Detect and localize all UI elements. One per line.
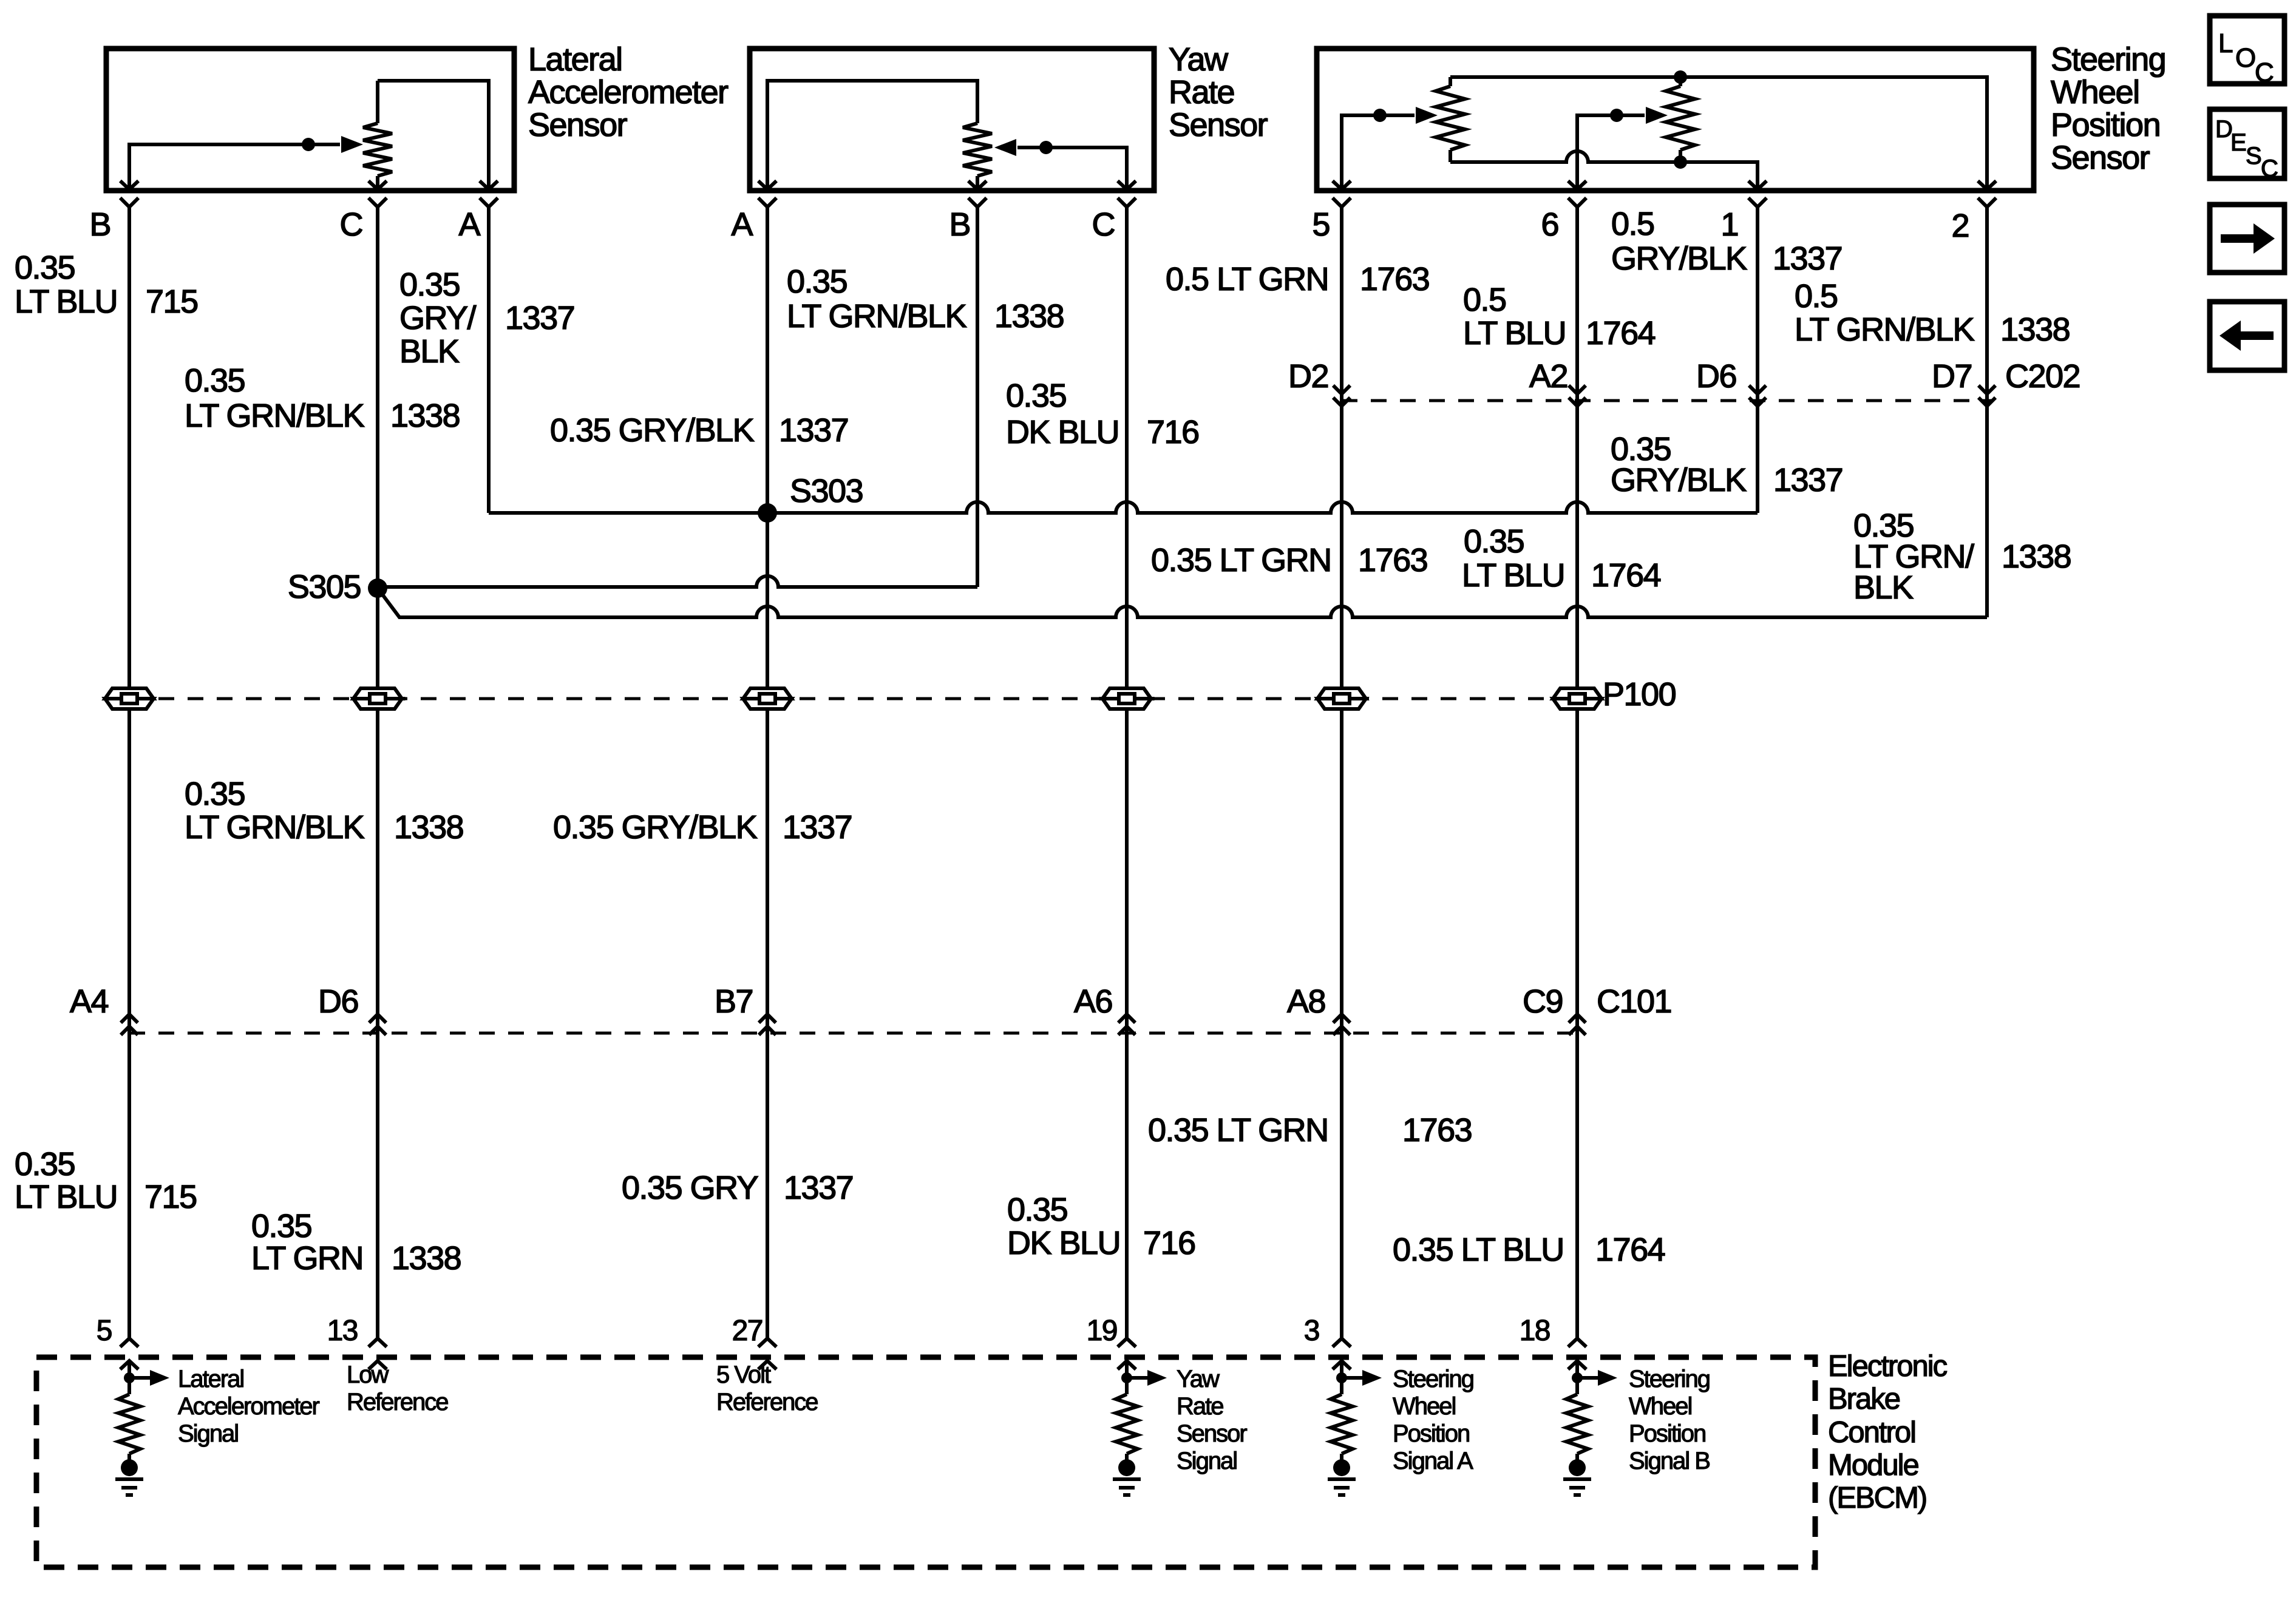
svg-text:1763: 1763	[1402, 1112, 1472, 1148]
wire label 0.35 LT BLU 1764 (below C202 A2)	[1462, 523, 1661, 594]
svg-text:D2: D2	[1288, 358, 1328, 395]
C202 pass-through arrows at D2	[1333, 385, 1350, 394]
svg-text:D6: D6	[318, 983, 358, 1020]
svg-text:Low: Low	[347, 1361, 389, 1388]
svg-text:D: D	[2215, 116, 2232, 143]
junction dot on swps wiper 1	[1373, 109, 1387, 122]
pin A male terminal	[758, 181, 776, 189]
wire 1338: lateral pin C to EBCM pin 13	[376, 207, 379, 1338]
junction dot EBCM swpsA	[1336, 1372, 1347, 1383]
svg-text:BLK: BLK	[1853, 569, 1914, 606]
DESC navigation box	[2210, 109, 2284, 178]
wire label 0.35 GRY/BLK 1337 (below P100)	[553, 809, 852, 846]
svg-text:0.5 LT GRN: 0.5 LT GRN	[1166, 261, 1328, 297]
svg-text:1338: 1338	[394, 809, 463, 846]
svg-text:L: L	[2218, 29, 2233, 58]
wire: EBCM lateral signal tap arrow	[129, 1376, 150, 1380]
wire label 0.35 LT GRN/BLK 1338 (lateral C)	[185, 362, 460, 434]
P100 grommet symbol col 622	[353, 688, 402, 699]
LOC navigation box	[2210, 16, 2284, 84]
wire: EBCM yaw signal tap arrow	[1127, 1376, 1147, 1380]
svg-text:Sensor: Sensor	[528, 107, 628, 143]
junction dot on wiper	[302, 138, 315, 151]
svg-text:0.35 GRY/BLK: 0.35 GRY/BLK	[553, 809, 758, 846]
svg-text:0.35: 0.35	[399, 266, 460, 303]
svg-text:Signal B: Signal B	[1629, 1448, 1710, 1474]
resistor: swps element 2	[1666, 86, 1695, 150]
pin 5 male terminal	[1333, 181, 1351, 189]
EBCM label: Low Reference	[347, 1361, 448, 1415]
svg-text:LT GRN/BLK: LT GRN/BLK	[1795, 311, 1975, 348]
EBCM male terminal arrow col 1264	[758, 1361, 776, 1369]
wire label 0.5 LT GRN/BLK 1338 (swps 2)	[1795, 278, 2070, 348]
resistor: EBCM yaw pulldown	[1116, 1394, 1138, 1454]
steering wheel position sensor box	[1317, 49, 2034, 191]
wire: swps wiper 1 (pin 5)	[1342, 115, 1415, 189]
svg-text:0.5: 0.5	[1463, 282, 1506, 318]
C101 pass-through arrows at D6	[369, 1014, 386, 1023]
svg-text:Wheel: Wheel	[2051, 74, 2139, 110]
svg-text:Yaw: Yaw	[1169, 41, 1229, 78]
EBCM male terminal arrow col 213	[120, 1361, 138, 1369]
EBCM male terminal arrow col 2598	[1568, 1361, 1586, 1369]
resistor: EBCM swpsB pulldown	[1566, 1394, 1588, 1454]
svg-text:0.35: 0.35	[15, 1146, 75, 1182]
svg-text:1764: 1764	[1595, 1232, 1665, 1268]
svg-text:O: O	[2235, 43, 2255, 73]
resistor: lateral sensor element	[363, 123, 392, 176]
lateral accelerometer sensor title	[528, 41, 729, 143]
resistor: EBCM lateral pulldown	[118, 1394, 140, 1454]
wire: EBCM internal lateral input	[127, 1361, 131, 1394]
svg-text:C101: C101	[1597, 983, 1671, 1020]
pin B female terminal	[120, 198, 138, 207]
svg-text:Module: Module	[1828, 1449, 1918, 1482]
svg-text:C9: C9	[1523, 983, 1563, 1020]
svg-text:A8: A8	[1287, 983, 1325, 1020]
wire 1338: yaw pin B down to low-ref branch	[976, 207, 979, 587]
svg-text:LT GRN/BLK: LT GRN/BLK	[185, 809, 365, 846]
wire 1337: lateral pin A down to splice level	[487, 207, 491, 513]
EBCM male terminal arrow col 2210	[1333, 1361, 1351, 1369]
svg-text:DK BLU: DK BLU	[1007, 1225, 1120, 1261]
C202 pass-through arrows at A2	[1569, 385, 1586, 394]
EBCM female terminal col 1856	[1118, 1338, 1136, 1347]
pin 6 male terminal	[1568, 181, 1586, 189]
svg-text:LT BLU: LT BLU	[1462, 557, 1564, 594]
svg-text:BLK: BLK	[399, 333, 460, 370]
pin B male terminal	[968, 181, 987, 189]
pin A female terminal	[758, 198, 776, 207]
wire 716: yaw pin C to EBCM pin 19	[1125, 207, 1129, 1338]
svg-text:Control: Control	[1828, 1416, 1915, 1449]
junction dot on swps wiper 2	[1610, 109, 1623, 122]
EBCM title	[1828, 1350, 1948, 1514]
wire: resistor bottom lead to pin C	[376, 176, 379, 189]
svg-text:0.35 GRY/BLK: 0.35 GRY/BLK	[550, 412, 755, 449]
wire: yaw resistor bottom lead to pin B	[976, 176, 979, 189]
wire label 0.5 LT GRN 1763 (swps 5)	[1166, 261, 1429, 297]
svg-text:1338: 1338	[2002, 538, 2071, 575]
svg-text:DK BLU: DK BLU	[1006, 414, 1119, 450]
EBCM female terminal col 622	[369, 1338, 387, 1347]
svg-text:716: 716	[1147, 414, 1199, 450]
resistor: yaw sensor element	[963, 123, 992, 176]
pin B male terminal	[120, 181, 138, 189]
svg-text:(EBCM): (EBCM)	[1828, 1482, 1926, 1514]
svg-text:Steering: Steering	[1393, 1366, 1473, 1392]
wire label 0.35 LT BLU 715 (upper)	[15, 249, 198, 320]
svg-text:Signal: Signal	[1177, 1448, 1237, 1474]
wiper arrowhead	[341, 136, 363, 153]
wire label 0.35 LT GRN/BLK 1338 (yaw B)	[787, 263, 1064, 334]
C101 pass-through arrows at C9	[1569, 1014, 1586, 1023]
C101 pass-through arrows at A6	[1118, 1014, 1135, 1023]
pin 2 male terminal	[1978, 181, 1996, 189]
svg-text:3: 3	[1304, 1315, 1319, 1347]
svg-text:C: C	[1092, 206, 1115, 243]
svg-text:13: 13	[327, 1315, 358, 1347]
pin C female terminal	[369, 198, 387, 207]
svg-text:Steering: Steering	[2051, 41, 2165, 78]
wire 1337: yaw pin A / 5V reference to EBCM pin 27	[766, 207, 769, 1338]
EBCM male terminal arrow col 622	[369, 1361, 387, 1369]
lateral accelerometer sensor box	[106, 49, 514, 191]
svg-text:1338: 1338	[2000, 311, 2070, 348]
wire: 5V reference branch S303 (lateral A - yaw A - swps 1), hops over cols	[489, 502, 1758, 513]
connector C202 dashed line	[1342, 399, 1991, 402]
swps wiper 1 arrowhead	[1416, 107, 1438, 124]
EBCM label: Steering Wheel Position Signal A	[1393, 1366, 1473, 1474]
P100 grommet symbol col 1264	[743, 688, 792, 699]
svg-text:A: A	[458, 206, 480, 243]
pin A male terminal	[480, 181, 498, 189]
wire label 0.35 LT GRN 1763 (below C202 D2)	[1151, 542, 1427, 578]
svg-text:Position: Position	[2051, 107, 2160, 143]
svg-text:1338: 1338	[994, 298, 1064, 334]
C101 pass-through arrows at A4	[121, 1014, 138, 1023]
EBCM label: Steering Wheel Position Signal B	[1629, 1366, 1710, 1474]
svg-text:LT GRN/BLK: LT GRN/BLK	[787, 298, 967, 334]
wire: yaw sensor pin A to resistor top	[767, 81, 977, 189]
wire 715: lateral pin B to EBCM pin 5	[127, 207, 131, 1338]
svg-text:GRY/BLK: GRY/BLK	[1611, 462, 1747, 498]
svg-text:1338: 1338	[392, 1240, 461, 1276]
svg-text:1763: 1763	[1360, 261, 1429, 297]
svg-text:1337: 1337	[779, 412, 848, 449]
wire label 0.35 LT GRN 1763 (lower)	[1148, 1112, 1472, 1148]
node S305 splice dot	[368, 578, 387, 598]
svg-text:GRY/BLK: GRY/BLK	[1611, 240, 1747, 277]
pin 6 female terminal	[1568, 198, 1586, 207]
svg-text:1764: 1764	[1586, 315, 1656, 351]
svg-text:S303: S303	[790, 473, 863, 509]
pin 5 female terminal	[1333, 198, 1351, 207]
svg-text:GRY/: GRY/	[399, 300, 477, 336]
svg-text:E: E	[2230, 129, 2246, 156]
svg-text:5: 5	[97, 1315, 112, 1347]
svg-text:P100: P100	[1603, 676, 1676, 713]
svg-text:18: 18	[1520, 1315, 1550, 1347]
yaw wiper arrowhead	[994, 139, 1016, 156]
wire: low reference branch S305 to swps pin 2 (diagonal start, hops cols)	[378, 588, 1987, 617]
svg-text:0.35 LT BLU: 0.35 LT BLU	[1393, 1232, 1564, 1268]
svg-text:6: 6	[1541, 206, 1558, 243]
svg-text:1337: 1337	[783, 809, 852, 846]
P100 grommet symbol col 213	[105, 688, 154, 699]
wire: EBCM swpsB signal tap arrow	[1577, 1376, 1598, 1380]
svg-text:A2: A2	[1529, 358, 1567, 395]
junction dot: element 2 top	[1674, 70, 1687, 84]
C101 pass-through arrows at B7	[759, 1014, 776, 1023]
wire label 0.35 GRY/BLK 1337 (below C202 D6)	[1611, 431, 1843, 498]
svg-text:Accelerometer: Accelerometer	[178, 1393, 320, 1420]
left arrow navigation box	[2210, 302, 2284, 370]
svg-text:LT BLU: LT BLU	[15, 1179, 117, 1215]
wire label 0.35 GRY/BLK 1337 (lateral A)	[399, 266, 574, 370]
svg-text:B: B	[949, 206, 970, 243]
svg-text:Reference: Reference	[716, 1389, 818, 1415]
svg-text:0.35: 0.35	[1007, 1192, 1067, 1228]
wire: swps wiper 2 (pin 6)	[1577, 115, 1645, 189]
svg-text:C: C	[2255, 58, 2274, 87]
svg-text:0.35 GRY: 0.35 GRY	[622, 1170, 758, 1206]
wire: EBCM internal yaw input	[1125, 1361, 1129, 1394]
wire label 0.35 LT GRN/BLK 1338 (below C202 D7)	[1853, 507, 2071, 606]
svg-text:1: 1	[1720, 206, 1738, 243]
svg-text:D7: D7	[1932, 358, 1972, 395]
junction dot EBCM lateral	[124, 1372, 135, 1383]
svg-text:Steering: Steering	[1629, 1366, 1710, 1392]
wire label 0.35 LT GRN 1338 (lower)	[251, 1208, 461, 1276]
svg-text:1337: 1337	[1773, 462, 1843, 498]
svg-text:Reference: Reference	[347, 1389, 448, 1415]
svg-text:0.35: 0.35	[251, 1208, 311, 1244]
svg-text:Sensor: Sensor	[1169, 107, 1268, 143]
svg-text:Accelerometer: Accelerometer	[528, 74, 729, 110]
EBCM female terminal col 1264	[758, 1338, 776, 1347]
pin A female terminal	[480, 198, 498, 207]
wire label 0.35 LT BLU 1764 (lower)	[1393, 1232, 1665, 1268]
svg-text:B7: B7	[715, 983, 753, 1020]
svg-text:C: C	[340, 206, 363, 243]
svg-text:LT GRN: LT GRN	[251, 1240, 363, 1276]
wire: yaw sensor wiper (pin C)	[1017, 147, 1127, 189]
svg-text:1337: 1337	[784, 1170, 853, 1206]
junction dot on yaw wiper	[1039, 141, 1053, 154]
pin B female terminal	[968, 198, 987, 207]
svg-text:27: 27	[732, 1315, 763, 1347]
junction dot EBCM yaw	[1121, 1372, 1132, 1383]
svg-text:A4: A4	[70, 983, 109, 1020]
svg-text:C: C	[2261, 155, 2278, 182]
wire 1764: swps pin 6 to EBCM pin 18	[1575, 207, 1579, 1338]
svg-text:19: 19	[1087, 1315, 1117, 1347]
EBCM label: Lateral Accelerometer Signal	[178, 1366, 320, 1447]
wire label 0.5 GRY/BLK 1337 (swps 1)	[1611, 206, 1842, 277]
wire: EBCM internal swpsA input	[1340, 1361, 1343, 1394]
svg-text:Signal A: Signal A	[1393, 1448, 1473, 1474]
svg-text:0.5: 0.5	[1795, 278, 1838, 314]
svg-text:Lateral: Lateral	[178, 1366, 243, 1392]
wire: swps element 2 bottom lead	[1679, 150, 1682, 162]
wire label 0.35 LT BLU 715 (lower)	[15, 1146, 197, 1215]
svg-text:715: 715	[146, 283, 198, 320]
wire 1338: swps pin 2 through C202 D7 to low-ref branch	[1985, 207, 1989, 617]
svg-text:Sensor: Sensor	[1177, 1420, 1247, 1447]
wire label 0.35 LT GRN/BLK 1338 (below P100)	[185, 776, 463, 846]
junction dot: element 2 bottom	[1674, 155, 1687, 169]
svg-text:Brake: Brake	[1828, 1383, 1900, 1415]
wire: low reference branch S305 to yaw pin B, hops 5V wire	[378, 576, 977, 587]
yaw rate sensor box	[750, 49, 1154, 191]
wire label 0.35 GRY/BLK 1337 (yaw A)	[550, 412, 848, 449]
svg-text:1337: 1337	[1773, 240, 1842, 277]
svg-text:Position: Position	[1629, 1420, 1705, 1447]
EBCM female terminal col 2210	[1333, 1338, 1351, 1347]
wire label 0.5 LT BLU 1764 (swps 6)	[1463, 282, 1656, 351]
swps wiper 2 arrowhead	[1646, 107, 1668, 124]
P100 grommet symbol col 1856	[1102, 688, 1151, 699]
ground: EBCM lateral	[121, 1459, 138, 1476]
C202 pass-through arrows at D7	[1978, 385, 1995, 394]
ground: EBCM yaw	[1118, 1459, 1135, 1476]
wire: EBCM internal swpsB input	[1575, 1361, 1579, 1394]
svg-text:Yaw: Yaw	[1177, 1366, 1220, 1392]
svg-text:1763: 1763	[1358, 542, 1427, 578]
svg-text:Wheel: Wheel	[1629, 1393, 1691, 1420]
EBCM label: 5 Volt Reference	[716, 1361, 818, 1415]
wire: EBCM yaw resistor to ground	[1125, 1454, 1129, 1460]
wire: swps element 1 top lead	[1449, 77, 1452, 86]
pin 1 male terminal	[1748, 181, 1767, 189]
wire: swps element 1 bottom lead	[1449, 150, 1452, 162]
wire: lateral sensor internal top to pin A	[378, 81, 489, 189]
svg-text:LT GRN/BLK: LT GRN/BLK	[185, 398, 365, 434]
svg-text:1337: 1337	[505, 300, 574, 336]
svg-text:Lateral: Lateral	[528, 41, 622, 78]
svg-text:0.35: 0.35	[1464, 523, 1524, 560]
EBCM module dashed box	[36, 1357, 1815, 1567]
EBCM female terminal col 213	[120, 1338, 138, 1347]
resistor: swps element 1	[1436, 86, 1465, 150]
ground: EBCM swpsA	[1333, 1459, 1350, 1476]
wire: swps element 2 top lead	[1679, 77, 1682, 86]
wire: EBCM swpsB resistor to ground	[1575, 1454, 1579, 1460]
svg-text:Signal: Signal	[178, 1420, 238, 1447]
pin C female terminal	[1118, 198, 1136, 207]
P100 grommet symbol col 2210	[1317, 688, 1366, 699]
P100 grommet symbol col 2598	[1553, 688, 1601, 699]
svg-text:0.35 LT GRN: 0.35 LT GRN	[1148, 1112, 1328, 1148]
svg-text:S305: S305	[288, 569, 361, 605]
svg-text:Rate: Rate	[1169, 74, 1234, 110]
wire label 0.35 DK BLU 716 (yaw C)	[1006, 378, 1199, 450]
svg-text:0.35: 0.35	[185, 362, 245, 399]
svg-text:Wheel: Wheel	[1393, 1393, 1455, 1420]
wire: lateral sensor wiper (pin B)	[129, 144, 340, 189]
svg-text:5 Volt: 5 Volt	[716, 1361, 771, 1388]
pin 2 female terminal	[1978, 198, 1996, 207]
svg-text:0.35: 0.35	[1006, 378, 1066, 414]
svg-text:D6: D6	[1696, 358, 1736, 395]
node S303 splice dot	[758, 503, 777, 523]
C101 pass-through arrows at A8	[1333, 1014, 1350, 1023]
wire 1337: swps pin 1 through C202 D6 to splice branch	[1756, 207, 1759, 513]
wire label 0.35 GRY 1337 (lower)	[622, 1170, 853, 1206]
svg-text:LT BLU: LT BLU	[15, 283, 117, 320]
svg-text:5: 5	[1312, 206, 1330, 243]
svg-text:Sensor: Sensor	[2051, 140, 2150, 176]
wire: EBCM swpsA signal tap arrow	[1342, 1376, 1362, 1380]
svg-text:A: A	[731, 206, 753, 243]
wire 1763: swps pin 5 to EBCM pin 3	[1340, 207, 1343, 1338]
connector C101 dashed line	[129, 1032, 1586, 1035]
svg-text:0.5: 0.5	[1611, 206, 1654, 242]
svg-text:C202: C202	[2005, 358, 2080, 395]
EBCM label: Yaw Rate Sensor Signal	[1177, 1366, 1247, 1474]
resistor: EBCM swpsA pulldown	[1331, 1394, 1353, 1454]
svg-text:LT BLU: LT BLU	[1463, 315, 1566, 351]
svg-text:Rate: Rate	[1177, 1393, 1223, 1420]
pin C male terminal	[1118, 181, 1136, 189]
wire: lateral sensor internal lead pin C to resistor	[376, 81, 379, 123]
svg-text:S: S	[2246, 143, 2261, 169]
pin C male terminal	[369, 181, 387, 189]
svg-text:B: B	[89, 206, 110, 243]
svg-text:1338: 1338	[390, 398, 460, 434]
svg-text:0.35: 0.35	[185, 776, 245, 812]
wire label 0.35 DK BLU 716 (lower)	[1007, 1192, 1195, 1261]
wire: swps internal top bus to pin 2	[1450, 77, 1987, 189]
svg-text:Position: Position	[1393, 1420, 1469, 1447]
svg-text:1764: 1764	[1591, 557, 1661, 594]
grommet P100 dashed line	[129, 697, 1577, 700]
wire: EBCM swpsA resistor to ground	[1340, 1454, 1343, 1460]
EBCM male terminal arrow col 1856	[1118, 1361, 1136, 1369]
C202 pass-through arrows at D6	[1749, 385, 1766, 394]
svg-text:716: 716	[1143, 1225, 1195, 1261]
right arrow navigation box	[2210, 205, 2284, 273]
steering wheel position sensor title	[2051, 41, 2165, 176]
wire: EBCM lateral resistor to ground	[127, 1454, 131, 1460]
yaw rate sensor title	[1169, 41, 1268, 143]
wire: swps internal bottom bus to pin 1 (hops pin 6 wire)	[1450, 151, 1758, 189]
junction dot EBCM swpsB	[1572, 1372, 1583, 1383]
svg-text:0.35: 0.35	[787, 263, 847, 300]
EBCM female terminal col 2598	[1568, 1338, 1586, 1347]
svg-text:2: 2	[1951, 208, 1969, 244]
svg-text:Electronic: Electronic	[1828, 1350, 1948, 1383]
svg-text:0.35 LT GRN: 0.35 LT GRN	[1151, 542, 1331, 578]
ground: EBCM swpsB	[1569, 1459, 1586, 1476]
pin 1 female terminal	[1748, 198, 1767, 207]
svg-text:715: 715	[144, 1179, 197, 1215]
svg-text:A6: A6	[1074, 983, 1112, 1020]
svg-text:0.35: 0.35	[15, 249, 75, 286]
